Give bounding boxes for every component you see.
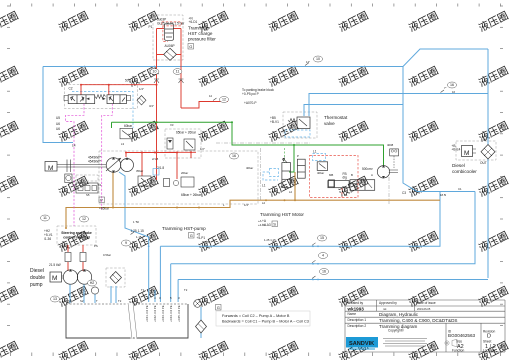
- svg-text:4545kW*: 4545kW*: [88, 160, 102, 164]
- svg-text:Copyright©: Copyright©: [388, 329, 405, 333]
- svg-text:HST charge: HST charge: [188, 31, 213, 36]
- svg-text:T: T: [283, 157, 285, 161]
- svg-text:Created by: Created by: [348, 301, 364, 305]
- svg-text:2/1.8: 2/1.8: [157, 166, 164, 170]
- svg-text:pump: pump: [30, 282, 43, 288]
- svg-text:P1: P1: [149, 25, 153, 29]
- svg-text:+6-D1: +6-D1: [189, 20, 198, 24]
- svg-text:P: P: [100, 197, 103, 202]
- svg-text:/1.36: /1.36: [44, 237, 51, 241]
- svg-text:D: D: [487, 334, 491, 340]
- svg-text:dig: dig: [343, 176, 347, 180]
- svg-text:T: T: [96, 299, 98, 303]
- svg-text:C3: C3: [402, 191, 406, 195]
- svg-text:GL25 GL04 1.5 bar: GL25 GL04 1.5 bar: [157, 22, 185, 26]
- svg-text:40bar: 40bar: [246, 166, 253, 170]
- svg-text:3/4": 3/4": [149, 104, 154, 108]
- svg-text:18.5l: 18.5l: [440, 193, 446, 197]
- svg-text:Backwards = Coil C1 – Pump B –: Backwards = Coil C1 – Pump B – Motor A –…: [222, 320, 309, 324]
- svg-text:Tramming diagram: Tramming diagram: [379, 324, 418, 329]
- svg-text:Diesel: Diesel: [452, 163, 465, 168]
- svg-text:13: 13: [53, 297, 57, 301]
- svg-text:+0-P5 pol P: +0-P5 pol P: [242, 92, 259, 96]
- svg-text:AU06P: AU06P: [165, 44, 175, 48]
- svg-text:14": 14": [306, 60, 310, 64]
- svg-text:1 '50: 1 '50: [133, 220, 139, 224]
- svg-text:+B-E4: +B-E4: [452, 148, 461, 152]
- svg-text:Tramming, C400 & C900, DC&DT&D: Tramming, C400 & C900, DC&DT&DS: [379, 318, 457, 323]
- svg-text:+C44 -C4 PE: +C44 -C4 PE: [169, 305, 173, 322]
- svg-text:valve: valve: [324, 121, 335, 126]
- svg-text:G: G: [190, 233, 193, 238]
- svg-text:Tramming: Tramming: [188, 26, 209, 31]
- svg-text:3/8": 3/8": [205, 240, 210, 244]
- svg-text:2/1.8: 2/1.8: [152, 157, 159, 161]
- svg-text:21.5 kW: 21.5 kW: [49, 263, 61, 267]
- svg-text:L3: L3: [121, 142, 125, 146]
- svg-text:U6: U6: [56, 122, 60, 126]
- svg-text:L2: L2: [289, 190, 293, 194]
- svg-text:T1: T1: [141, 288, 145, 292]
- svg-text:Steering and brake: Steering and brake: [61, 231, 92, 235]
- svg-text:50%: 50%: [125, 79, 132, 83]
- svg-text:35bar: 35bar: [136, 169, 143, 173]
- svg-text:G: G: [217, 305, 220, 310]
- svg-text:OUT: OUT: [480, 161, 487, 165]
- svg-text:BG00462563: BG00462563: [448, 333, 476, 338]
- svg-text:M: M: [48, 165, 53, 172]
- svg-text:A: A: [371, 173, 373, 177]
- svg-text:40bar: 40bar: [317, 171, 324, 175]
- svg-text:7": 7": [444, 86, 447, 90]
- svg-text:12: 12: [209, 94, 213, 98]
- svg-text:K1: K1: [98, 183, 102, 187]
- svg-text:PS: PS: [60, 244, 64, 248]
- svg-text:16: 16: [232, 154, 236, 158]
- svg-text:T2: T2: [118, 299, 122, 303]
- svg-text:1/4": 1/4": [244, 203, 249, 207]
- svg-text:+C45 -C4 PE: +C45 -C4 PE: [177, 305, 181, 322]
- svg-text:SANDVIK: SANDVIK: [349, 341, 374, 347]
- svg-text:Date of issue: Date of issue: [417, 301, 436, 305]
- svg-text:combicooler: combicooler: [452, 169, 477, 174]
- svg-text:Thermostat: Thermostat: [324, 115, 348, 120]
- svg-text:16: 16: [452, 90, 456, 94]
- svg-text:Tramming HST Motor: Tramming HST Motor: [260, 212, 304, 217]
- svg-text:C1: C1: [458, 187, 462, 191]
- svg-text:X1: X1: [344, 193, 348, 197]
- svg-text:L4: L4: [72, 144, 76, 148]
- svg-text:G: G: [189, 44, 192, 49]
- svg-text:9: 9: [125, 241, 127, 245]
- svg-text:C2: C2: [69, 87, 73, 91]
- svg-text:4008: 4008: [387, 143, 394, 147]
- svg-text:L2: L2: [262, 201, 266, 205]
- svg-text:4: 4: [322, 254, 324, 258]
- svg-text:U6: U6: [56, 127, 60, 131]
- svg-text:+5-P1: +5-P1: [197, 236, 206, 240]
- svg-text:MB: MB: [329, 173, 333, 177]
- svg-text:S2: S2: [80, 299, 84, 303]
- svg-text:+65bar: +65bar: [99, 207, 110, 211]
- svg-text:T2: T2: [184, 288, 188, 292]
- svg-text:..: ..: [500, 303, 502, 307]
- svg-text:L1: L1: [262, 184, 266, 188]
- svg-text:12: 12: [222, 98, 226, 102]
- svg-text:Description 2: Description 2: [348, 324, 367, 328]
- svg-text:+4-A3: +4-A3: [258, 223, 266, 227]
- svg-text:Approved by: Approved by: [379, 301, 397, 305]
- svg-text:B: B: [351, 173, 353, 177]
- svg-text:+C42 -C4 PE: +C42 -C4 PE: [153, 305, 157, 322]
- svg-text:12: 12: [82, 217, 86, 221]
- svg-text:15: 15: [320, 236, 324, 240]
- svg-text:2019-06-05: 2019-06-05: [417, 307, 431, 311]
- svg-text:1.25 1.15: 1.25 1.15: [131, 229, 145, 233]
- svg-text:1.25 1.15: 1.25 1.15: [264, 238, 276, 242]
- svg-text:1 / 2: 1 / 2: [485, 344, 496, 350]
- svg-text:16: 16: [322, 270, 326, 274]
- svg-text:S1: S1: [68, 299, 72, 303]
- svg-text:16: 16: [450, 83, 454, 87]
- svg-text:1/4": 1/4": [139, 87, 144, 91]
- svg-text:S5: S5: [86, 193, 90, 197]
- svg-text:M: M: [464, 150, 469, 157]
- svg-text:S: S: [273, 221, 276, 226]
- svg-text:M: M: [52, 275, 57, 282]
- svg-text:+C43 -C4 PE: +C43 -C4 PE: [161, 305, 165, 322]
- svg-text:10: 10: [316, 57, 320, 61]
- svg-text:Name: Name: [348, 312, 357, 316]
- svg-text:wk1993: wk1993: [347, 307, 365, 312]
- svg-text:Sheet: Sheet: [483, 340, 491, 344]
- svg-text:double: double: [30, 275, 45, 281]
- svg-text:pressure filter: pressure filter: [188, 37, 216, 42]
- svg-text:U5: U5: [56, 116, 60, 120]
- svg-text:H2: H2: [90, 281, 95, 285]
- svg-text:65bar + 26bar: 65bar + 26bar: [176, 131, 197, 135]
- svg-text:11: 11: [176, 70, 180, 74]
- svg-text:L1: L1: [313, 150, 317, 154]
- svg-text:1/2": 1/2": [200, 147, 205, 151]
- svg-text:1.15: 1.15: [136, 235, 142, 239]
- svg-text:26bar: 26bar: [181, 171, 188, 175]
- svg-text:+A070-P: +A070-P: [244, 101, 257, 105]
- svg-text:500cm³: 500cm³: [362, 167, 373, 171]
- svg-text:Diagram, Hydraulic: Diagram, Hydraulic: [379, 312, 419, 317]
- svg-text:0.5bar: 0.5bar: [103, 253, 111, 257]
- svg-text:A2: A2: [457, 344, 464, 350]
- svg-text:control manifold: control manifold: [63, 236, 90, 240]
- svg-text:Description 1: Description 1: [348, 318, 367, 322]
- svg-text:+B-V1: +B-V1: [270, 120, 279, 124]
- svg-text:60bar: 60bar: [124, 124, 133, 128]
- svg-text:Tramming HST-pump: Tramming HST-pump: [162, 226, 206, 231]
- svg-text:P: P: [297, 154, 299, 158]
- svg-text:PS: PS: [94, 244, 98, 248]
- svg-text:Diesel: Diesel: [30, 268, 44, 274]
- svg-text:X3: X3: [170, 123, 174, 127]
- svg-text:Forwards = Coil C2 – Pump A –: Forwards = Coil C2 – Pump A – Motor B: [222, 314, 290, 318]
- svg-text:+C41 -C4 PE: +C41 -C4 PE: [145, 305, 149, 322]
- svg-text:11: 11: [43, 216, 47, 220]
- svg-text:10: 10: [153, 70, 157, 74]
- svg-text:65bar + 26bar: 65bar + 26bar: [181, 193, 202, 197]
